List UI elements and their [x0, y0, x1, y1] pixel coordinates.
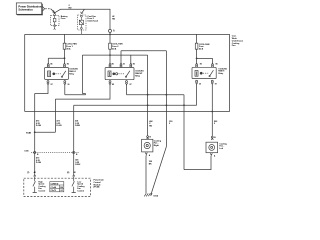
svg-text:(PCM): (PCM): [94, 187, 100, 189]
wire: right fuse drop from ring: [196, 34, 198, 43]
wire: middle relay riser x130.8: [130, 55, 132, 63]
svg-text:30: 30: [199, 84, 201, 86]
wire: left fan ground drop: [145, 156, 147, 194]
wire: middle relay riser x110: [109, 55, 111, 63]
fuse F1: COOL FAN Fuse 1: [63, 43, 66, 49]
label: right fan name: [219, 143, 227, 150]
wire: power distribution bus y9.3: [55, 9, 110, 29]
svg-text:40 A: 40 A: [199, 48, 204, 51]
svg-text:30: 30: [67, 84, 69, 86]
PCM driver 2 label: [77, 181, 85, 192]
svg-text:B: B: [37, 154, 39, 156]
reference box: Power Distribution Schematics: [16, 3, 44, 15]
wire: y94.7 left segment: [65, 94, 86, 96]
svg-text:D-GN: D-GN: [36, 162, 42, 164]
connector C105 dotted line: [31, 152, 79, 154]
svg-text:Schematics: Schematics: [18, 7, 33, 11]
wire: jog y93.8: [82, 93, 85, 95]
svg-text:BK: BK: [149, 163, 152, 165]
wire: fuse2 bottom to junction y55.1: [109, 49, 111, 55]
fuse F2: COOL FAN Fuse 2: [109, 43, 112, 49]
wire: B+ ring bottom y111.5: [25, 111, 230, 113]
svg-text:85: 85: [200, 64, 202, 66]
svg-text:45: 45: [34, 171, 37, 174]
svg-text:2: 2: [169, 123, 171, 125]
svg-text:87: 87: [215, 84, 217, 86]
svg-text:86: 86: [216, 64, 218, 66]
svg-text:Left: Left: [219, 147, 223, 150]
relay K1: cooling fan low relay (left): [45, 63, 69, 85]
wire: S14B tie y132.3: [35, 131, 56, 133]
svg-text:A: A: [149, 154, 151, 157]
wire: x82.4 drop from fuse2 line: [81, 55, 83, 93]
wire: B+ ring right x229.6: [229, 34, 231, 111]
wire: B+ ring top y34.4: [25, 33, 230, 35]
svg-text:40 A: 40 A: [112, 47, 117, 50]
wire: right fuse to feed line: [196, 49, 198, 58]
svg-text:A: A: [113, 30, 115, 33]
cool fan fuse (dashed box on bus): [78, 9, 86, 34]
PCM connector ID table: [50, 182, 64, 192]
wire: left fuse drop from ring: [64, 34, 66, 43]
PCM pin labels: [27, 171, 77, 174]
svg-text:Relay: Relay: [218, 73, 224, 75]
svg-text:CONN ID: CONN ID: [51, 183, 59, 185]
wire: left relay pin87 to PCM jog: [35, 84, 48, 93]
svg-text:S14B: S14B: [26, 131, 32, 134]
wire: right relay riser x212.5: [212, 58, 214, 62]
wire: y55.1 line: [82, 54, 147, 56]
svg-text:(7): (7): [27, 172, 30, 174]
svg-text:Fan: Fan: [232, 45, 236, 47]
svg-text:B: B: [150, 136, 152, 138]
svg-text:C2=73: C2=73: [51, 190, 56, 192]
title block top right: [232, 35, 244, 48]
battery fuse (dashed, top left): [51, 14, 59, 30]
label: bus wire code left: [69, 5, 72, 9]
svg-text:85: 85: [67, 64, 69, 66]
wire: middle relay pin86 drop x110: [55, 84, 110, 99]
PCM driver 1 (high speed): [33, 178, 37, 192]
wire: x88.3 stub: [85, 94, 87, 95]
labels: right relay pins: [199, 64, 218, 86]
svg-text:86: 86: [50, 64, 52, 66]
node: arrowhead into bus: [53, 10, 55, 12]
connector C105 pins: [34, 151, 75, 153]
right fan motor M2: [206, 136, 218, 156]
svg-text:85: 85: [133, 64, 135, 66]
wire code label left fan ground: [149, 161, 153, 165]
wire: B+ ring left x24.7: [24, 34, 26, 111]
wire: left relay pin30 drop x64.8: [64, 84, 66, 95]
wire: dashed link from reference box: [45, 8, 50, 10]
wire: middle relay pin87 drop x126: [126, 85, 128, 95]
wire: arrow from power distribution schematic: [51, 9, 55, 13]
relay K3: cooling fan high relay (right): [192, 63, 216, 85]
wire code labels below C105: [36, 156, 81, 166]
relay K2: cooling fan S/P relay (middle): [105, 63, 134, 85]
PCM dashed box: [24, 178, 91, 196]
svg-text:Control: Control: [38, 190, 45, 193]
labels: left relay pins: [50, 64, 69, 86]
svg-text:C105: C105: [24, 151, 28, 153]
svg-text:RD: RD: [149, 126, 152, 128]
svg-text:Right: Right: [154, 144, 159, 147]
label: left relay name: [69, 69, 78, 76]
svg-text:B: B: [76, 154, 78, 156]
svg-text:G114: G114: [153, 194, 159, 197]
label: left fan name: [154, 140, 162, 147]
ground G114: [144, 193, 152, 196]
label: Powertrain Control Module: [94, 179, 105, 189]
wire: x55.4 to S14B: [54, 99, 56, 132]
svg-text:D-GN: D-GN: [56, 125, 62, 127]
svg-text:30 A: 30 A: [66, 47, 71, 50]
PCM driver 1 label: [38, 181, 46, 192]
svg-text:87: 87: [130, 84, 132, 86]
svg-text:Underhood: Underhood: [87, 19, 98, 22]
wire: x184 corner down: [183, 95, 185, 170]
wire: fan feed x147.6: [147, 55, 149, 136]
label: middle relay name: [135, 71, 144, 78]
svg-text:86: 86: [112, 64, 114, 66]
PCM driver 2 (low speed): [72, 178, 76, 192]
svg-text:Control: Control: [77, 190, 84, 193]
wire: PCM high control x34.7: [34, 94, 36, 174]
PCM pin connectors: [34, 174, 75, 179]
wire: right relay riser x196.6: [196, 58, 198, 62]
wire: right relay pin30 drop: [196, 84, 198, 105]
wire: x110 ring to fuse2: [109, 34, 111, 43]
wire: right fan bottom path: [184, 156, 211, 170]
svg-text:Relay: Relay: [69, 74, 75, 76]
svg-text:85: 85: [112, 84, 114, 86]
wire: PCM low control x73.7: [73, 105, 75, 173]
wire: y50.7 line: [121, 50, 166, 52]
svg-text:D-BU: D-BU: [75, 125, 81, 127]
wire: feed drop x110 from connector A to ring: [109, 32, 111, 34]
wire: right relay pin87 drop x212.3: [211, 84, 213, 136]
svg-text:87: 87: [51, 84, 53, 86]
wire: y94.7 right segment: [127, 94, 185, 96]
fuse F3: COOL FAN Fuse 3: [195, 43, 198, 49]
svg-text:D-BU: D-BU: [75, 164, 81, 166]
connector A circle: [109, 29, 112, 32]
label: right relay name: [218, 68, 227, 75]
labels: middle relay pins: [112, 64, 135, 86]
label: bus wire code right of x110: [112, 15, 115, 20]
svg-text:Fuse: Fuse: [61, 18, 67, 20]
svg-text:(2): (2): [67, 172, 70, 174]
svg-text:B: B: [214, 137, 216, 139]
svg-text:D-GN: D-GN: [36, 125, 42, 127]
svg-text:2: 2: [214, 123, 216, 125]
wire: left relay riser x48.3: [47, 58, 49, 62]
left fan motor M1: [142, 136, 153, 156]
wire: y105.3 line: [74, 104, 197, 106]
wire: diagonal to ground: [151, 147, 167, 196]
svg-text:Relay: Relay: [135, 76, 141, 78]
wire code labels row y119-129: [36, 119, 218, 127]
svg-text:C1=68: C1=68: [51, 187, 56, 189]
wire: left fuse to feed line: [64, 49, 66, 58]
svg-text:RD: RD: [112, 19, 115, 21]
svg-text:30: 30: [123, 64, 125, 66]
wire: left relay feed y58.3: [48, 57, 64, 59]
wire: right relay feed y58.4: [197, 57, 213, 59]
wire: x166.4 drop: [165, 51, 167, 147]
svg-text:A: A: [214, 154, 216, 157]
wire: left relay riser x64.5: [64, 58, 66, 62]
wire: middle relay riser x121: [120, 51, 122, 63]
